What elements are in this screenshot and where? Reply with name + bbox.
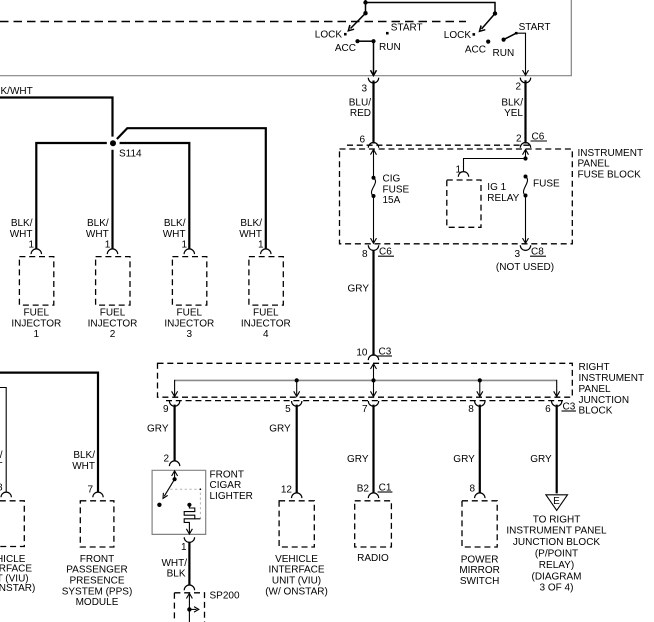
svg-text:15A: 15A bbox=[383, 195, 401, 206]
svg-text:(DIAGRAM: (DIAGRAM bbox=[532, 571, 582, 582]
wire SW2 output bbox=[516, 33, 528, 75]
arrow into fuse block pin 2 bbox=[523, 150, 529, 159]
svg-text:TO RIGHT: TO RIGHT bbox=[533, 514, 581, 525]
svg-text:FRONT: FRONT bbox=[210, 469, 244, 480]
svg-text:BLU/: BLU/ bbox=[349, 97, 371, 108]
label radio bbox=[357, 553, 389, 564]
fuel injector 1 dashed box bbox=[19, 257, 53, 306]
svg-text:GRY: GRY bbox=[530, 454, 552, 465]
wire RUN-START bridge bbox=[504, 33, 517, 39]
svg-text:2: 2 bbox=[110, 329, 116, 340]
svg-text:2: 2 bbox=[516, 133, 522, 144]
svg-text:ACC: ACC bbox=[465, 45, 486, 56]
svg-text:RUN: RUN bbox=[493, 48, 515, 59]
SW2 RUN terminal bbox=[493, 38, 515, 60]
wire BLK/YEL bbox=[501, 80, 525, 144]
SW2 START terminal bbox=[515, 22, 551, 34]
svg-text:LOCK: LOCK bbox=[444, 30, 472, 41]
switch SW2 wiper bbox=[480, 14, 496, 32]
junction block C3 row dashed line bbox=[166, 400, 563, 402]
wire bus drop pin 5 bbox=[294, 380, 300, 396]
svg-text:K/WHT: K/WHT bbox=[1, 86, 33, 97]
SP200 internal wire bbox=[186, 593, 192, 622]
SW1 RUN terminal bbox=[371, 39, 400, 53]
svg-text:BLK/: BLK/ bbox=[73, 450, 95, 461]
svg-text:START: START bbox=[519, 22, 551, 33]
connector C8 pin 3 (not used) bbox=[496, 245, 554, 273]
svg-text:INSTRUMENT: INSTRUMENT bbox=[578, 148, 644, 159]
wire bus drop pin 8 bbox=[477, 380, 483, 396]
svg-text:CIGAR: CIGAR bbox=[210, 480, 242, 491]
splice SP200 dashed box bbox=[174, 590, 240, 622]
svg-text:GRY: GRY bbox=[347, 454, 369, 465]
wire S114 to injector 4 bbox=[117, 128, 266, 249]
cigar lighter fixed contact bbox=[157, 503, 161, 507]
connector left VIU pin (cut) bbox=[0, 483, 11, 498]
svg-text:GRY: GRY bbox=[348, 283, 370, 294]
wire GRY pin 9 bbox=[147, 405, 175, 462]
svg-text:1: 1 bbox=[34, 329, 40, 340]
svg-text:VEHICLE: VEHICLE bbox=[275, 554, 318, 565]
connector injector 3 pin 1 bbox=[182, 240, 195, 255]
power mirror switch dashed box bbox=[462, 501, 497, 547]
svg-text:GRY: GRY bbox=[453, 454, 475, 465]
svg-text:1: 1 bbox=[455, 164, 461, 175]
svg-text:RADIO: RADIO bbox=[357, 553, 389, 564]
svg-text:8: 8 bbox=[362, 249, 368, 260]
fuel injector 3 dashed box bbox=[172, 257, 206, 306]
connector VIU pin 12 bbox=[281, 484, 302, 498]
label power mirror switch bbox=[459, 554, 500, 587]
svg-text:(W/ ONSTAR): (W/ ONSTAR) bbox=[265, 586, 328, 597]
SW1 ACC terminal bbox=[335, 39, 360, 54]
connector C3 pin 6 bbox=[545, 401, 576, 415]
svg-text:INJECTOR: INJECTOR bbox=[88, 318, 138, 329]
fuel injector 4 dashed box bbox=[249, 257, 283, 306]
wire BLK/WHT feed bbox=[0, 86, 113, 137]
connector C3 pin 5 bbox=[285, 401, 302, 415]
svg-text:SWITCH: SWITCH bbox=[460, 576, 499, 587]
label fuel injector 4 bbox=[241, 308, 291, 341]
svg-text:2: 2 bbox=[515, 82, 521, 93]
svg-text:YEL: YEL bbox=[504, 108, 523, 119]
fuse FUSE (right) bbox=[523, 175, 560, 198]
wire to IG1 relay bbox=[464, 159, 526, 172]
svg-text:PANEL: PANEL bbox=[578, 159, 610, 170]
svg-text:8: 8 bbox=[468, 404, 474, 415]
svg-text:IG 1: IG 1 bbox=[487, 182, 506, 193]
svg-text:5: 5 bbox=[285, 404, 291, 415]
svg-text:/: / bbox=[0, 450, 3, 461]
svg-text:8: 8 bbox=[0, 483, 3, 494]
SW1 START terminal bbox=[386, 23, 423, 35]
svg-text:UNIT (VIU): UNIT (VIU) bbox=[272, 576, 321, 587]
svg-text:BLK/: BLK/ bbox=[501, 97, 523, 108]
node SW1 common bbox=[363, 11, 367, 15]
connector power mirror pin 8 bbox=[469, 484, 485, 499]
svg-text:3: 3 bbox=[187, 329, 193, 340]
wire GRY pin 7 bbox=[347, 405, 374, 494]
svg-text:FUSE BLOCK: FUSE BLOCK bbox=[578, 170, 642, 181]
label front cigar lighter bbox=[210, 469, 253, 502]
svg-text:INSTRUMENT PANEL: INSTRUMENT PANEL bbox=[506, 526, 607, 537]
svg-text:T: T bbox=[0, 461, 3, 472]
svg-text:8: 8 bbox=[469, 484, 475, 495]
svg-text:GRY: GRY bbox=[269, 423, 291, 434]
switch SW1 wiper bbox=[348, 13, 365, 31]
svg-text:BLK/: BLK/ bbox=[164, 218, 186, 229]
svg-text:ACC: ACC bbox=[335, 43, 356, 54]
splice S114 bbox=[110, 140, 142, 160]
svg-text:POWER: POWER bbox=[461, 554, 499, 565]
arrow into junction block bbox=[371, 364, 377, 381]
node feed splice bbox=[363, 0, 367, 4]
node relay branch bbox=[523, 156, 527, 160]
svg-text:FUEL: FUEL bbox=[177, 308, 203, 319]
node bus pin 8 bbox=[478, 378, 482, 382]
svg-text:6: 6 bbox=[359, 134, 365, 145]
connector C6 pin 2 dome bbox=[520, 131, 547, 147]
cigar lighter heating element bbox=[184, 503, 200, 534]
label vehicle interface unit bbox=[265, 554, 328, 597]
SW2 ACC terminal bbox=[465, 40, 490, 56]
svg-text:(P/POINT: (P/POINT bbox=[535, 549, 578, 560]
svg-text:FUEL: FUEL bbox=[24, 308, 50, 319]
wire GRY pin 6 bbox=[530, 405, 557, 494]
connector C3 pin 10 bbox=[356, 346, 392, 360]
connector C3 pin 9 bbox=[163, 401, 180, 415]
wire ignition feed bbox=[366, 0, 496, 14]
svg-text:FUEL: FUEL bbox=[100, 308, 126, 319]
label BLK/WHT injector 4 bbox=[239, 218, 262, 240]
connector C6 pin 6 dome bbox=[368, 142, 378, 147]
svg-text:RELAY: RELAY bbox=[487, 193, 519, 204]
svg-text:3 OF 4): 3 OF 4) bbox=[540, 583, 574, 594]
wire WHT/BLK bbox=[161, 542, 189, 586]
svg-text:7: 7 bbox=[87, 484, 93, 495]
arrow into fuse block pin 6 bbox=[371, 150, 377, 179]
label BLK/WHT injector 3 bbox=[163, 218, 186, 240]
connector C6 pin 8 bbox=[362, 245, 394, 260]
svg-text:INJECTOR: INJECTOR bbox=[11, 318, 61, 329]
node bus pin 7 bbox=[371, 378, 375, 382]
label fuel injector 1 bbox=[11, 308, 61, 341]
svg-text:WHT: WHT bbox=[163, 229, 186, 240]
wire S114 to injector 1 bbox=[36, 143, 107, 249]
connector cigar lighter pin 2 bbox=[163, 454, 179, 467]
connector radio pin B2 C1 bbox=[357, 482, 393, 498]
fuel injector 2 dashed box bbox=[96, 257, 130, 306]
cigar lighter switch arrow in bbox=[172, 471, 178, 479]
wire fuse to pin 3 C8 bbox=[523, 196, 529, 243]
svg-text:4: 4 bbox=[263, 329, 269, 340]
connector injector 1 pin 1 bbox=[29, 240, 42, 255]
svg-text:1: 1 bbox=[181, 542, 187, 553]
junction block dashed box bbox=[158, 363, 573, 397]
svg-text:BLK/: BLK/ bbox=[240, 218, 262, 229]
SW1 LOCK terminal bbox=[315, 30, 347, 41]
wire ACC-RUN bridge bbox=[358, 40, 374, 42]
svg-text:2: 2 bbox=[163, 454, 169, 465]
svg-text:BLK/: BLK/ bbox=[87, 218, 109, 229]
svg-text:E: E bbox=[553, 496, 560, 507]
fuse CIG FUSE 15A bbox=[371, 174, 409, 207]
svg-text:WHT: WHT bbox=[72, 461, 95, 472]
IG 1 relay dashed box bbox=[447, 180, 520, 227]
wire bus drop pin 6 bbox=[554, 391, 560, 396]
connector C3 pin 7 bbox=[362, 401, 379, 415]
svg-text:RIGHT: RIGHT bbox=[579, 362, 610, 373]
vehicle interface unit dashed box bbox=[279, 501, 314, 547]
svg-text:CIG: CIG bbox=[383, 174, 401, 185]
svg-text:12: 12 bbox=[281, 484, 293, 495]
left VIU dashed box (cut) bbox=[0, 501, 24, 547]
label front passenger presence system module bbox=[62, 554, 133, 608]
label instrument panel fuse block bbox=[578, 148, 644, 181]
wire bus drop pin 9 bbox=[172, 391, 178, 396]
label fuel injector 3 bbox=[164, 308, 214, 341]
svg-text:RUN: RUN bbox=[379, 42, 401, 53]
splice SP200 connector bbox=[184, 585, 194, 590]
svg-text:BLK/: BLK/ bbox=[11, 218, 33, 229]
wire BLU/RED bbox=[349, 81, 374, 146]
svg-text:JUNCTION: JUNCTION bbox=[579, 395, 630, 406]
svg-text:PRESENCE: PRESENCE bbox=[69, 576, 124, 587]
off-page connector E triangle bbox=[546, 495, 568, 511]
svg-text:RED: RED bbox=[350, 108, 371, 119]
svg-text:3: 3 bbox=[514, 249, 520, 260]
connector IG1 relay pin 1 bbox=[455, 164, 468, 177]
svg-text:PASSENGER: PASSENGER bbox=[66, 565, 128, 576]
svg-text:(NOT USED): (NOT USED) bbox=[496, 262, 554, 273]
svg-text:FRONT: FRONT bbox=[80, 554, 114, 565]
wire bus drop pin 7 bbox=[371, 380, 377, 396]
svg-text:FUSE: FUSE bbox=[533, 179, 560, 190]
label to right instrument panel junction block bbox=[506, 514, 607, 593]
node bus pin 5 bbox=[295, 378, 299, 382]
label right instrument panel junction block bbox=[579, 362, 645, 417]
svg-text:INJECTOR: INJECTOR bbox=[241, 318, 291, 329]
connector injector 4 pin 1 bbox=[258, 240, 271, 255]
instrument panel fuse block dashed box bbox=[340, 149, 573, 244]
svg-text:LOCK: LOCK bbox=[315, 30, 343, 41]
svg-text:INSTRUMENT: INSTRUMENT bbox=[579, 373, 645, 384]
junction block bus bbox=[175, 380, 557, 396]
svg-text:RELAY): RELAY) bbox=[539, 560, 574, 571]
svg-text:10: 10 bbox=[356, 347, 368, 358]
wire BLK/WHT to PPS bbox=[0, 373, 98, 493]
svg-text:LIGHTER: LIGHTER bbox=[210, 491, 253, 502]
wire SW1 output bbox=[371, 41, 377, 75]
wire GRY pin 5 bbox=[269, 405, 297, 494]
svg-text:7: 7 bbox=[362, 404, 368, 415]
ignition switch dashed boundary bbox=[0, 21, 466, 23]
svg-text:3: 3 bbox=[361, 83, 367, 94]
svg-text:INTERFACE: INTERFACE bbox=[268, 565, 324, 576]
svg-text:WHT: WHT bbox=[10, 229, 33, 240]
node SW2 common bbox=[493, 11, 497, 15]
svg-text:FUEL: FUEL bbox=[253, 308, 279, 319]
svg-text:S114: S114 bbox=[119, 149, 142, 160]
svg-text:PANEL: PANEL bbox=[579, 384, 611, 395]
connector pin 2 top bbox=[515, 78, 530, 93]
wire GRY main bbox=[348, 250, 374, 356]
svg-text:START: START bbox=[391, 23, 423, 34]
connector C3 pin 8 bbox=[468, 401, 485, 415]
PPS module dashed box bbox=[80, 501, 114, 547]
svg-text:MODULE: MODULE bbox=[76, 597, 119, 608]
wire GRY pin 8 bbox=[453, 405, 480, 494]
connector injector 2 pin 1 bbox=[105, 240, 118, 255]
label fuel injector 2 bbox=[88, 308, 138, 341]
connector pin 3 bbox=[361, 78, 378, 95]
svg-text:WHT: WHT bbox=[239, 229, 262, 240]
svg-text:FUSE: FUSE bbox=[383, 184, 410, 195]
wire to left VIU (cut) bbox=[0, 388, 6, 493]
svg-text:BLK: BLK bbox=[167, 569, 186, 580]
svg-text:MIRROR: MIRROR bbox=[459, 565, 500, 576]
wire S114 to injector 3 bbox=[120, 143, 190, 249]
front cigar lighter box bbox=[152, 470, 206, 534]
svg-text:JUNCTION BLOCK: JUNCTION BLOCK bbox=[513, 537, 601, 548]
svg-text:WHT/: WHT/ bbox=[161, 558, 187, 569]
svg-text:B2: B2 bbox=[357, 484, 370, 495]
cigar lighter linkage (light dashed) bbox=[170, 488, 201, 519]
SP200 branch node bbox=[187, 607, 199, 613]
svg-text:SYSTEM (PPS): SYSTEM (PPS) bbox=[62, 586, 133, 597]
wire cig fuse to pin 8 bbox=[371, 196, 377, 243]
connector PPS pin 7 bbox=[87, 484, 103, 497]
SW2 LOCK terminal bbox=[444, 30, 475, 41]
svg-text:(W/ ONSTAR): (W/ ONSTAR) bbox=[0, 583, 35, 594]
svg-text:BLOCK: BLOCK bbox=[579, 406, 613, 417]
cigar lighter switch wiper bbox=[163, 477, 177, 498]
svg-text:6: 6 bbox=[545, 404, 551, 415]
svg-text:INJECTOR: INJECTOR bbox=[164, 318, 214, 329]
svg-text:WHT: WHT bbox=[86, 229, 109, 240]
ignition switch housing box bbox=[0, 0, 571, 76]
label BLK/WHT injector 2 bbox=[86, 218, 109, 240]
label BLK/WHT injector 1 bbox=[10, 218, 33, 240]
radio dashed box bbox=[355, 501, 392, 547]
svg-text:9: 9 bbox=[163, 404, 169, 415]
connector cigar lighter pin 1 bbox=[181, 537, 195, 553]
C6 connector row dashed line bbox=[347, 144, 530, 146]
svg-text:SP200: SP200 bbox=[210, 590, 240, 601]
label left VIU (cut) bbox=[0, 554, 35, 594]
wire S114 to injector 2 bbox=[111, 150, 113, 249]
svg-text:GRY: GRY bbox=[147, 423, 169, 434]
